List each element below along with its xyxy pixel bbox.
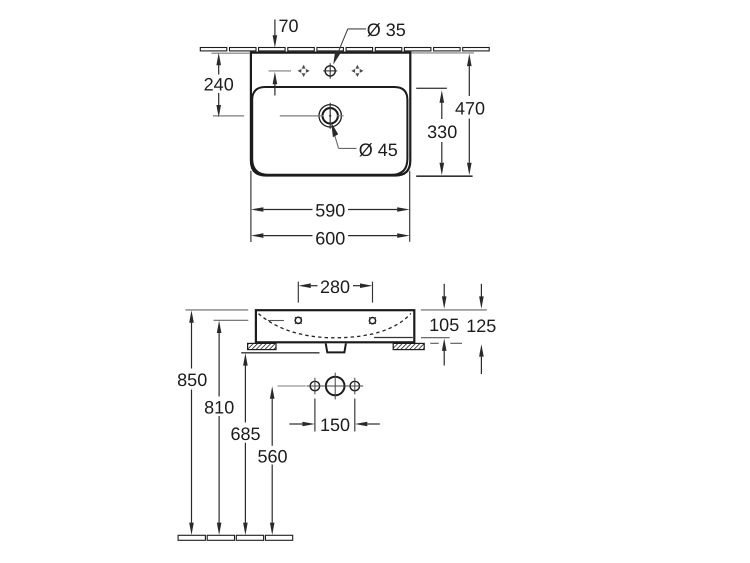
- extension line at wall, left: [212, 52, 250, 54]
- basin inner bowl outline (plan view): [252, 87, 407, 175]
- drain centre line: [213, 115, 319, 117]
- wall fixing hole right: [350, 381, 359, 390]
- svg-text:600: 600: [315, 228, 345, 248]
- fixing hole right (front view): [369, 317, 376, 324]
- svg-text:280: 280: [320, 277, 350, 297]
- dimension 240: [204, 53, 234, 118]
- mounting bracket left (hatched): [248, 343, 276, 349]
- svg-text:330: 330: [427, 122, 457, 142]
- mounting bracket right (hatched): [393, 343, 424, 349]
- centre line through wall holes: [278, 373, 364, 400]
- centre line tick, tap hole row: [269, 70, 292, 72]
- tap hole circle Ø35: [323, 63, 337, 78]
- floor section: [178, 535, 293, 540]
- wall fixing hole centre: [326, 377, 345, 396]
- svg-text:105: 105: [429, 315, 459, 335]
- extension line, basin front edge: [416, 175, 472, 177]
- svg-text:590: 590: [315, 201, 345, 221]
- basin body outline (front view): [256, 310, 414, 342]
- tap hole transfer mark left: [298, 65, 310, 77]
- wall fixing hole left: [310, 381, 319, 390]
- extension lines for dimension 280: [298, 282, 372, 303]
- svg-text:685: 685: [230, 424, 260, 444]
- extension line, fixing hole level: [214, 319, 249, 321]
- dimension 685: [230, 353, 260, 535]
- dimension 560: [257, 386, 287, 535]
- dimension 125: [430, 284, 496, 374]
- dimension 470: [455, 54, 485, 176]
- dimension 850: [177, 310, 207, 535]
- basin outer outline (plan view): [251, 53, 410, 176]
- dimension 70: [273, 16, 299, 95]
- label Ø 35 with leader: [333, 20, 406, 64]
- wall section (plan view): [200, 48, 489, 51]
- extension line, bowl rear edge: [416, 87, 447, 89]
- dimension 600: [251, 228, 410, 248]
- dimension 590: [251, 201, 410, 221]
- svg-text:125: 125: [466, 316, 496, 336]
- inner bottom edge line (front view right): [374, 337, 413, 339]
- svg-text:70: 70: [278, 16, 298, 36]
- dimension 280: [298, 277, 372, 297]
- bowl bottom dashed curve (front view): [259, 313, 411, 337]
- extension lines for dimension 150: [315, 399, 355, 432]
- dimension 105: [421, 284, 459, 366]
- svg-text:Ø 45: Ø 45: [359, 140, 398, 160]
- drain hole Ø45 (plan): [317, 103, 344, 129]
- label Ø 45 with leader: [331, 122, 398, 160]
- svg-text:240: 240: [204, 75, 234, 95]
- extension line, basin top edge left: [186, 309, 249, 311]
- extension line, basin left edge: [250, 171, 252, 242]
- extension line at wall, right: [412, 52, 475, 54]
- drain outlet stub (front view): [326, 343, 346, 352]
- dimension 150: [289, 415, 380, 435]
- svg-text:850: 850: [177, 370, 207, 390]
- svg-text:Ø 35: Ø 35: [367, 20, 406, 40]
- dimension 810: [204, 321, 234, 536]
- extension line, basin top edge right: [421, 309, 487, 311]
- extension line, bracket underside: [241, 352, 319, 354]
- svg-text:470: 470: [455, 98, 485, 118]
- svg-text:560: 560: [257, 447, 287, 467]
- centre line tick, fixing holes: [268, 320, 284, 322]
- tap hole transfer mark right: [351, 65, 363, 77]
- dimension 330: [427, 90, 457, 175]
- svg-text:810: 810: [204, 398, 234, 418]
- svg-text:150: 150: [320, 415, 350, 435]
- fixing hole left (front view): [295, 317, 302, 324]
- extension line, basin right edge: [409, 171, 411, 242]
